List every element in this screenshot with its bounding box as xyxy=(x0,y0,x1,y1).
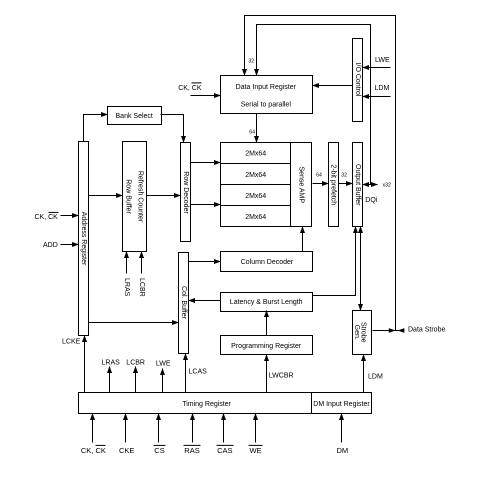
wire Refresh Counter to Row Decoder xyxy=(147,195,181,197)
block Bank Select xyxy=(108,107,162,125)
svg-text:x32: x32 xyxy=(383,182,391,188)
wire Sense AMP to 2-bit prefetch, 64-bit xyxy=(313,172,329,183)
svg-text:Latency & Burst Length: Latency & Burst Length xyxy=(230,299,303,306)
node LWE output of Timing Register xyxy=(156,361,171,393)
wire Programming Register to Latency and Burst Length xyxy=(266,311,268,336)
block Refresh Counter / Row Buffer xyxy=(123,142,147,252)
svg-text:Timing Register: Timing Register xyxy=(182,401,231,408)
svg-text:2-bit prefetch: 2-bit prefetch xyxy=(330,164,337,205)
node LCKE input to Address Register xyxy=(62,336,85,393)
wire Col Buffer to Column Decoder xyxy=(189,261,221,263)
wire I/O Control to Data Input Register xyxy=(313,85,353,87)
svg-text:DM: DM xyxy=(336,446,348,455)
block Output Buffer xyxy=(353,143,363,227)
svg-text:CK, CK: CK, CK xyxy=(178,85,202,92)
node CK,CK input to Address Register xyxy=(35,212,79,221)
svg-text:LCBR: LCBR xyxy=(138,278,145,297)
svg-text:Output Buffer: Output Buffer xyxy=(354,164,361,206)
svg-text:CAS: CAS xyxy=(217,446,232,455)
svg-text:I/O Control: I/O Control xyxy=(354,63,361,97)
svg-text:LCBR: LCBR xyxy=(126,360,145,367)
block Sense AMP xyxy=(291,143,312,227)
svg-text:64: 64 xyxy=(249,130,255,136)
wire Row Decoder to bank 3/4 boundary xyxy=(191,204,221,206)
block 2-bit prefetch xyxy=(329,143,339,227)
node LCAS input to Col Buffer xyxy=(186,354,208,393)
wire inner top loop (DQ to Data Input Register) xyxy=(257,25,371,185)
wire Data Input Register to memory array, 64-bit xyxy=(249,114,256,143)
svg-text:2Mx64: 2Mx64 xyxy=(245,172,266,179)
svg-text:LCKE: LCKE xyxy=(62,339,81,346)
wire Output Buffer to Strobe Gen bidirectional xyxy=(360,227,362,311)
svg-text:LWE: LWE xyxy=(156,361,171,368)
block Row Decoder xyxy=(181,143,191,242)
svg-text:LRAS: LRAS xyxy=(102,360,121,367)
svg-text:Column Decoder: Column Decoder xyxy=(241,259,294,266)
node CK,CK input to Timing Register xyxy=(81,414,106,456)
svg-text:LWCBR: LWCBR xyxy=(269,373,294,380)
block Column Decoder xyxy=(221,252,313,272)
wire Bank Select to Row Decoder xyxy=(161,115,184,143)
svg-text:Bank Select: Bank Select xyxy=(116,113,153,120)
wire Address Register to Refresh Counter xyxy=(89,195,123,197)
svg-text:64: 64 xyxy=(316,172,322,178)
block Data Input Register xyxy=(221,76,313,114)
node CK,CK input to Data Input Register xyxy=(178,83,220,96)
svg-text:Row Decoder: Row Decoder xyxy=(182,171,189,214)
block Address Register xyxy=(79,142,89,336)
node RAS input to Timing Register xyxy=(184,414,201,456)
svg-text:Address Register: Address Register xyxy=(80,212,87,266)
svg-text:32: 32 xyxy=(341,172,347,178)
node WE input to Timing Register xyxy=(249,414,263,456)
node LDM input to Strobe Gen xyxy=(364,355,383,393)
node DQi x32 bidirectional pad xyxy=(363,182,391,204)
block Strobe Gen xyxy=(353,311,372,355)
svg-text:DM Input Register: DM Input Register xyxy=(313,401,370,408)
node LRAS input to Refresh Counter xyxy=(123,252,130,297)
node LRAS output of Timing Register xyxy=(102,360,121,393)
wire Latency to Col Buffer xyxy=(189,300,221,302)
wire Address Register to Bank Select xyxy=(84,115,108,142)
svg-text:LWE: LWE xyxy=(375,57,390,64)
wire Address Register to Col Buffer xyxy=(89,322,179,324)
wire Column Decoder to Sense AMP xyxy=(302,227,304,252)
svg-text:Col. Buffer: Col. Buffer xyxy=(180,286,187,320)
svg-text:StrobeGen.: StrobeGen. xyxy=(353,322,367,343)
wire Row Decoder to bank 1/2 boundary xyxy=(191,162,221,164)
svg-text:2Mx64: 2Mx64 xyxy=(245,193,266,200)
svg-text:Data Strobe: Data Strobe xyxy=(408,327,445,334)
node CS input to Timing Register xyxy=(154,414,166,456)
node LCBR input to Refresh Counter xyxy=(138,252,145,297)
node LWCBR input to Programming Register xyxy=(267,355,294,393)
svg-text:LDM: LDM xyxy=(368,374,383,381)
svg-text:Programming Register: Programming Register xyxy=(231,343,302,350)
block I/O Control xyxy=(353,39,363,122)
svg-text:CK, CK: CK, CK xyxy=(81,446,106,455)
block Latency and Burst Length xyxy=(221,293,313,312)
node ADD input to Address Register xyxy=(43,242,79,249)
block DM Input Register xyxy=(312,393,372,414)
svg-text:LDM: LDM xyxy=(375,85,390,92)
block Col Buffer xyxy=(179,253,189,354)
svg-text:CK, CK: CK, CK xyxy=(35,214,59,221)
svg-text:DQi: DQi xyxy=(365,197,378,204)
svg-text:RAS: RAS xyxy=(184,446,199,455)
svg-text:Data Input Register: Data Input Register xyxy=(236,84,297,91)
node DM input to DM Input Register xyxy=(336,414,348,456)
node LCBR output of Timing Register xyxy=(126,360,145,393)
block Timing Register xyxy=(79,393,312,414)
svg-text:Sense AMP: Sense AMP xyxy=(298,166,305,203)
svg-text:CKE: CKE xyxy=(119,446,134,455)
svg-text:CS: CS xyxy=(154,446,164,455)
svg-text:ADD: ADD xyxy=(43,242,58,249)
node Data Strobe pad xyxy=(373,327,446,334)
block Programming Register xyxy=(221,336,313,355)
svg-text:LRAS: LRAS xyxy=(123,278,130,297)
svg-text:32: 32 xyxy=(248,59,254,65)
node CKE input to Timing Register xyxy=(119,414,134,456)
svg-text:Serial to parallel: Serial to parallel xyxy=(241,102,292,109)
svg-text:2Mx64: 2Mx64 xyxy=(245,214,266,221)
block memory bank array 2Mx64 x4 xyxy=(221,143,291,227)
node LWE input to I/O Control xyxy=(363,57,391,68)
wire Latency and Burst Length to Output Buffer xyxy=(313,227,356,296)
node CAS input to Timing Register xyxy=(217,414,234,456)
wire outer top loop (Data Strobe to Data Input Register) xyxy=(245,16,396,331)
svg-text:LCAS: LCAS xyxy=(189,369,208,376)
svg-text:2Mx64: 2Mx64 xyxy=(245,151,266,158)
svg-text:WE: WE xyxy=(249,446,261,455)
node LDM input to I/O Control xyxy=(363,85,391,97)
wire 2-bit prefetch to Output Buffer, 32-bit xyxy=(339,172,353,183)
